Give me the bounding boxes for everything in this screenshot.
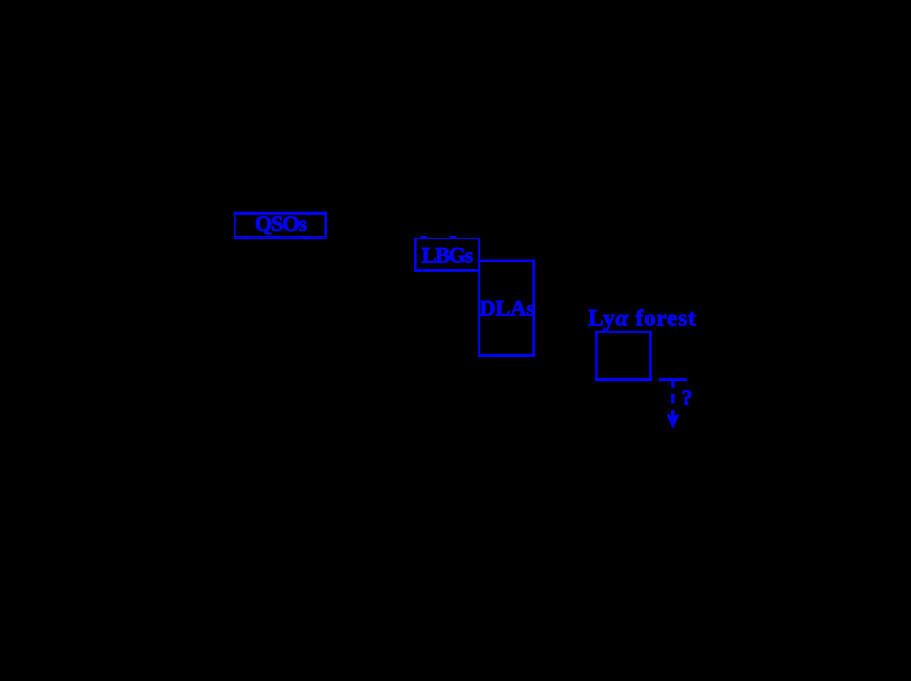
svg-text:?: ?	[682, 385, 693, 410]
svg-text:DLAs: DLAs	[479, 296, 535, 321]
svg-text:Lyα forest: Lyα forest	[588, 306, 696, 331]
svg-text:LBGs: LBGs	[422, 243, 474, 268]
svg-text:QSOs: QSOs	[255, 211, 307, 236]
